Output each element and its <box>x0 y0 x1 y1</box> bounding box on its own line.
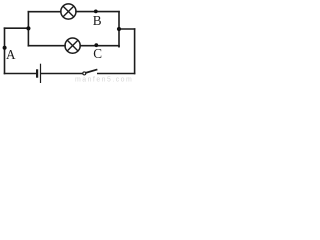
lamp L1 <box>61 4 76 19</box>
wire top branch left segment <box>28 11 60 13</box>
svg-text:A: A <box>6 47 16 62</box>
wire top branch right segment <box>76 11 119 13</box>
wire right horizontal to junction <box>119 28 135 30</box>
node B dot <box>94 10 98 14</box>
svg-text:manfen5.com: manfen5.com <box>75 77 133 84</box>
wire right inner vertical <box>118 12 120 47</box>
battery BT1 <box>37 64 40 82</box>
lamp L2 <box>65 38 80 53</box>
wire bottom middle segment <box>41 73 82 75</box>
svg-text:B: B <box>93 13 102 28</box>
wire middle branch left segment <box>28 45 65 47</box>
switch S1 <box>83 70 97 75</box>
wire left horizontal to junction <box>5 27 29 29</box>
svg-text:C: C <box>93 46 102 61</box>
junction left <box>26 26 30 30</box>
wire bottom left segment <box>5 73 36 75</box>
node A dot <box>3 46 7 50</box>
wire middle branch right segment <box>80 45 119 48</box>
wire right vertical outer <box>134 29 136 74</box>
junction right <box>117 27 121 31</box>
wire bottom right segment <box>98 73 135 75</box>
wire left vertical outer <box>4 28 6 73</box>
node C dot <box>94 43 98 47</box>
wire left inner vertical <box>27 12 29 46</box>
